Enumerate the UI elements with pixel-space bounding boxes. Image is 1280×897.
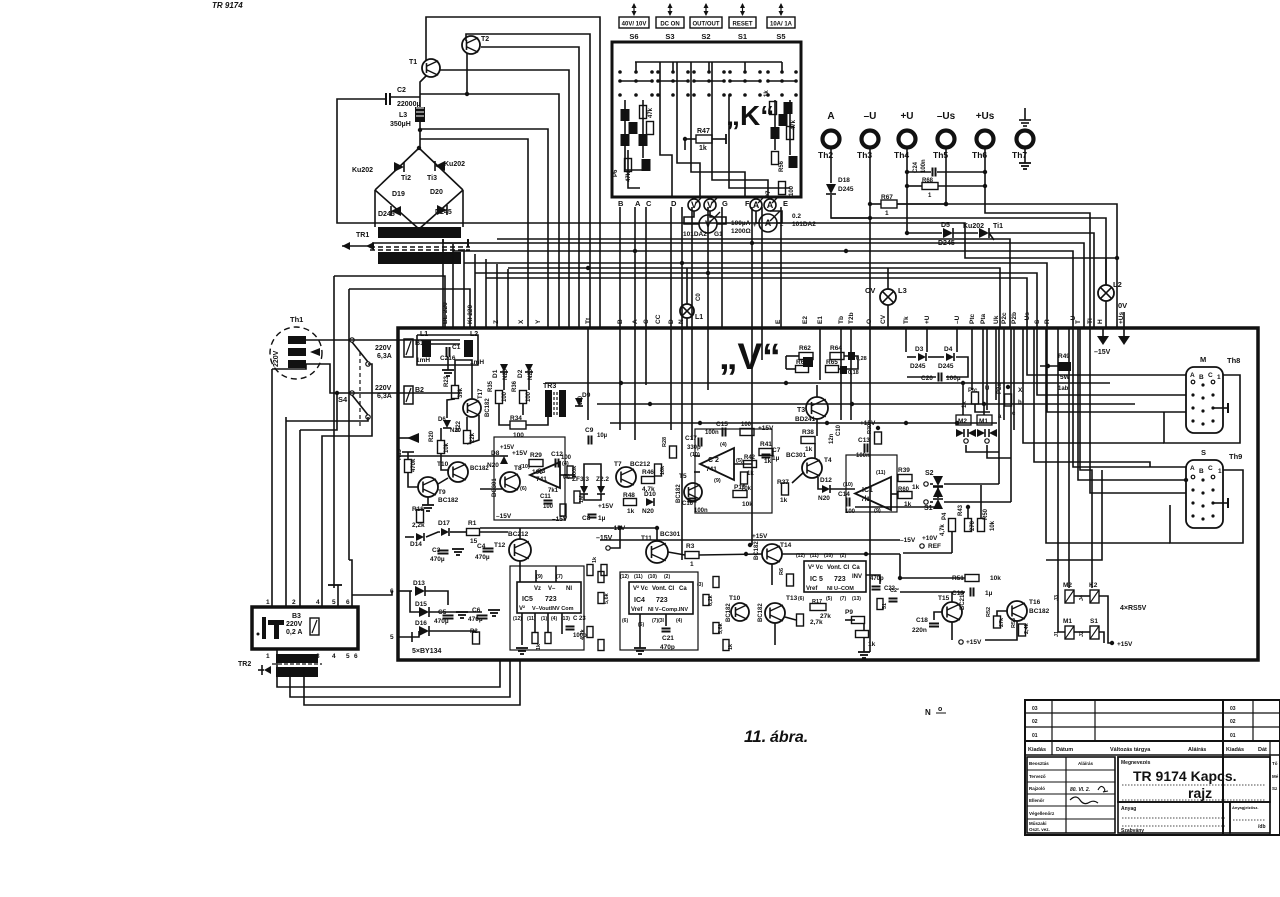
wire D16 right (429, 630, 476, 632)
wire bridge top-right arm (419, 148, 463, 190)
svg-text:D245: D245 (838, 186, 854, 193)
title col b (1094, 700, 1096, 741)
op-amp IC1 741 (855, 477, 891, 510)
svg-text:10µ: 10µ (597, 433, 608, 439)
svg-text:Sz: Sz (1272, 786, 1278, 791)
wire interior h404 (597, 403, 1135, 405)
svg-text:T10: T10 (729, 595, 741, 602)
svg-text:X: X (518, 319, 525, 324)
meter symbol V1 (688, 196, 703, 211)
terminal Th4 circle (899, 131, 916, 148)
wire IC6 b4 (561, 613, 563, 624)
wire lamp L1 below (686, 318, 688, 328)
svg-text:12n: 12n (829, 433, 835, 444)
transistor T2 (462, 36, 480, 54)
svg-text:1k: 1k (764, 90, 770, 97)
resistor P10 (733, 491, 747, 498)
svg-text:B: B (1199, 374, 1204, 381)
wire S4b (300, 393, 337, 430)
svg-text:2: 2 (292, 599, 296, 606)
wire C18 T15 (934, 612, 942, 620)
svg-text:741: 741 (536, 476, 547, 483)
wire IC6 b2 (534, 613, 536, 632)
svg-text:R47: R47 (697, 128, 710, 135)
svg-text:6: 6 (354, 653, 358, 660)
svg-text:–15V: –15V (496, 513, 512, 520)
thyristor Ti1 (979, 228, 989, 238)
wire S2 line (930, 483, 933, 485)
wire fan h243 (443, 243, 1084, 328)
wire relay M2 K2 (1074, 595, 1090, 597)
transistor T13 (765, 603, 785, 623)
ground below Th7 (1019, 163, 1031, 169)
svg-text:S1: S1 (924, 505, 933, 512)
wire T11 R3 (668, 552, 685, 555)
svg-text:D20: D20 (430, 189, 443, 196)
svg-text:01: 01 (1032, 733, 1038, 739)
svg-text:D: D (671, 199, 677, 208)
wire stair r2 (1010, 328, 1012, 502)
wire R38 T4 (814, 443, 816, 458)
wire K stair 3 (677, 62, 700, 197)
thyristor M2 sym a (956, 429, 964, 437)
diode D6 (443, 420, 451, 428)
svg-text:Tb: Tb (838, 316, 845, 324)
transformer unit T box (252, 607, 358, 649)
svg-text:5: 5 (390, 634, 394, 641)
svg-text:(4): (4) (720, 442, 727, 448)
capacitor C12 (556, 459, 559, 468)
svg-text:R34: R34 (510, 415, 522, 422)
wire K drop x722 (721, 207, 723, 328)
wire drop 752 in (751, 328, 753, 545)
diode D12 (822, 485, 830, 493)
svg-text:TR 9174: TR 9174 (212, 1, 243, 10)
wire K drop x646 (645, 207, 647, 328)
svg-text:6: 6 (346, 599, 350, 606)
svg-text:TR 9174 Kapcs.: TR 9174 Kapcs. (1133, 768, 1237, 784)
svg-text:101DA2: 101DA2 (792, 221, 816, 228)
svg-text:NI: NI (566, 586, 572, 592)
wire bus left end 0 (442, 239, 444, 328)
svg-text:(7): (7) (556, 574, 563, 580)
svg-text:A: A (827, 111, 834, 122)
diode D15 (419, 607, 429, 617)
resistor Rb1 (532, 633, 538, 644)
meter symbol A1 (750, 196, 765, 211)
svg-text:(12): (12) (513, 616, 522, 622)
wire bottom loop2 (290, 660, 510, 697)
wire cluster v1 (455, 360, 472, 399)
svg-text:D15: D15 (415, 601, 427, 608)
wire K stair 2 (660, 62, 672, 197)
svg-text:Változás tárgya: Változás tárgya (1110, 747, 1151, 753)
svg-text:220V: 220V (375, 385, 392, 392)
resistor R52 (994, 616, 1001, 628)
svg-text:A: A (1190, 465, 1195, 472)
resistor Rz1 (587, 565, 593, 576)
contact dot S4 r2 782 (780, 93, 784, 97)
svg-text:Pta: Pta (980, 314, 987, 325)
svg-text:7k1: 7k1 (548, 488, 559, 494)
capacitor C22b (889, 599, 898, 602)
resistor R37 (782, 483, 789, 495)
svg-text:P2c: P2c (1001, 312, 1008, 324)
diode D19 (391, 206, 401, 216)
ground C5 (456, 612, 468, 618)
junction fan 946 204 (944, 202, 948, 206)
wire M2 contact link (966, 445, 999, 452)
transformer TR1 core end bar (467, 239, 469, 247)
resistor R51 (965, 575, 979, 582)
wire drop 983 in (982, 328, 984, 405)
inductor L1f (422, 340, 431, 357)
svg-text:(9): (9) (536, 574, 543, 580)
resistor Rb2 (545, 633, 551, 644)
contact dot S4 r0 796 (794, 70, 798, 74)
switch S4 contact a (350, 338, 354, 342)
svg-text:1mH: 1mH (416, 357, 430, 364)
title right strip (1269, 741, 1271, 835)
svg-text:1µ: 1µ (985, 590, 993, 597)
wire -15V stub (1102, 328, 1104, 337)
title main left box (1027, 757, 1115, 833)
svg-text:R48: R48 (623, 492, 635, 499)
svg-text:02: 02 (1230, 719, 1236, 725)
junction h383 a (784, 381, 788, 385)
pot slug 0.28 (848, 352, 855, 360)
R47 lead end bar (725, 134, 727, 144)
wire minusU deep (869, 250, 871, 652)
arrow -15V (1097, 336, 1109, 345)
wire M1 contact link (987, 445, 1011, 458)
junction bus 708 273 (706, 271, 710, 275)
svg-text:+: + (753, 223, 757, 229)
contact S1 (924, 500, 928, 504)
transformer TR2 dashes (272, 663, 322, 665)
svg-text:5: 5 (332, 599, 336, 606)
svg-text:R18: R18 (412, 506, 424, 513)
wire R34 right (526, 417, 548, 425)
svg-text:Ti1: Ti1 (993, 223, 1003, 230)
capacitor C21 (662, 629, 671, 632)
anyag box (1118, 802, 1230, 833)
svg-text:G: G (722, 199, 728, 208)
switch S4 contact d (366, 415, 370, 419)
wire L2 up (1105, 258, 1107, 285)
svg-text:/db: /db (1258, 824, 1266, 830)
resistor R56c black (789, 156, 798, 168)
contact dot S2 r0 724 (722, 70, 726, 74)
wire plug line1 (306, 339, 460, 341)
svg-text:Uk: Uk (993, 315, 1000, 324)
svg-text:470µ: 470µ (430, 556, 445, 563)
contact dot S1 r0 673 (671, 70, 675, 74)
svg-text:723: 723 (656, 597, 668, 604)
svg-text:Oszt. vez.: Oszt. vez. (1029, 827, 1050, 832)
resistor R48 (624, 499, 637, 506)
switch label box S1 (729, 17, 756, 28)
svg-text:+15V: +15V (752, 533, 768, 540)
capacitor C14 (847, 498, 850, 507)
wire K drop x682 (681, 207, 683, 328)
wire pin5 stub (337, 585, 339, 607)
svg-text:1k: 1k (764, 458, 772, 465)
svg-text:C0: C0 (696, 293, 702, 301)
wire TR2 core (258, 669, 264, 671)
wire R47 left drop (684, 139, 686, 150)
pin Th8 8 (1211, 406, 1214, 409)
wire left v334 (333, 276, 335, 588)
svg-text:S5: S5 (776, 32, 785, 41)
junction R68 left (905, 184, 909, 188)
contact dot S2 r2 724 (722, 93, 726, 97)
pin Th9 10 (1201, 517, 1204, 520)
junction +15V IC1 (876, 426, 880, 430)
wire T13 e (774, 623, 776, 645)
contact row line S3 (730, 80, 760, 82)
svg-text:7ⅼ1: 7ⅼ1 (861, 494, 870, 503)
junction R67 left (868, 202, 872, 206)
wire fan h263 (464, 263, 1047, 328)
svg-text:100k: 100k (572, 465, 578, 478)
resistor R34 (510, 421, 526, 429)
wire bus left end 3 (474, 254, 476, 328)
wire L3 to bridge top (419, 122, 421, 148)
junction T11 c (655, 526, 659, 530)
svg-text:100p: 100p (573, 633, 587, 639)
capacitor C11 (544, 501, 553, 504)
svg-text:T15: T15 (938, 595, 950, 602)
contact dot S3 r2 760 (758, 93, 762, 97)
wire bus left end 5 (496, 264, 498, 328)
capacitor C23 (566, 627, 575, 630)
zener ZF33 (580, 486, 588, 494)
wire Th8 loop (1164, 375, 1240, 443)
contact dot S4 r0 782 (780, 70, 784, 74)
svg-text:C4: C4 (477, 543, 486, 550)
contact dot S4 r2 768 (766, 93, 770, 97)
svg-text:N: N (925, 708, 931, 717)
svg-text:TR2: TR2 (238, 661, 251, 668)
switch arrowheads S6 (632, 3, 637, 8)
svg-text:T11: T11 (641, 535, 652, 542)
wire fan h218 (870, 218, 1106, 285)
resistor R19 (405, 460, 412, 473)
svg-text:1: 1 (690, 561, 694, 568)
junction C19 (898, 576, 902, 580)
wire C24 line2 (937, 171, 985, 173)
transistor T17 (463, 399, 481, 417)
contact S2 (924, 482, 928, 486)
svg-text:R2: R2 (470, 629, 478, 635)
thyristor Ti2 (394, 162, 404, 172)
contact row line S4 (768, 80, 796, 82)
diode D1 (500, 364, 508, 372)
wire R35 R36 tops (522, 404, 524, 415)
svg-text:5,6k: 5,6k (604, 592, 610, 604)
contact lever S2 (708, 62, 710, 72)
svg-text:Kiadás: Kiadás (1028, 747, 1046, 753)
wire stair r5 (1046, 328, 1170, 543)
svg-text:OUT/OUT: OUT/OUT (693, 22, 720, 28)
transistor T3 (806, 397, 828, 419)
svg-text:NI U–COM: NI U–COM (827, 586, 854, 592)
svg-text:E1: E1 (817, 316, 824, 324)
wire center h423 (610, 422, 997, 424)
pin Th8 10 (1201, 422, 1204, 425)
svg-text:Vont. CI: Vont. CI (652, 586, 675, 592)
instrument G1 voltmeter (699, 212, 720, 233)
switch arrowheads S1 (740, 3, 745, 8)
title header bottom (1025, 754, 1280, 756)
wire stair r3 (1023, 328, 1164, 443)
wire T16 e (985, 621, 1017, 640)
enclosure op-amp C3 circuit (494, 437, 565, 520)
resistor R22 (464, 431, 471, 444)
svg-text:350µH: 350µH (390, 121, 411, 128)
wire plug line3 (306, 364, 460, 393)
switch S4 blade 1 (352, 342, 368, 362)
transistor T1 (422, 59, 440, 77)
wire Ti1 right (989, 233, 1094, 328)
svg-text:100: 100 (502, 391, 508, 402)
wire Th8 feed1 (1027, 328, 1186, 375)
svg-text:Th9: Th9 (1229, 452, 1242, 461)
svg-text:P6: P6 (613, 169, 619, 177)
svg-text:+15V: +15V (598, 503, 614, 510)
svg-text:470µ: 470µ (468, 616, 483, 623)
contact dot S2 r1 724 (722, 79, 726, 83)
IC IC5 723 (804, 561, 866, 592)
wire 0V stub2 (1123, 328, 1125, 337)
svg-text:100: 100 (513, 432, 524, 439)
wire K stair 5 (712, 62, 768, 197)
lamp L3 indicator (880, 289, 896, 305)
resistor R38 (801, 437, 815, 444)
junction h404 a (850, 402, 854, 406)
contact dot S0 r2 652 (650, 93, 654, 97)
svg-text:REF: REF (928, 543, 941, 550)
wire S4c (322, 364, 372, 440)
contact dot S2 r2 709 (707, 93, 711, 97)
diode D3 (918, 353, 926, 361)
svg-text:BD241: BD241 (795, 416, 816, 423)
wire IC6 b3 (547, 613, 549, 632)
svg-text:0.2: 0.2 (792, 213, 801, 220)
svg-text:V²: V² (519, 605, 525, 612)
junction T11 528b (618, 526, 622, 530)
svg-text:+Us: +Us (976, 111, 995, 122)
fuse B1 (404, 339, 413, 357)
svg-text:RESET: RESET (732, 22, 752, 28)
signature squiggle2 (1070, 797, 1098, 804)
svg-text:D6: D6 (438, 417, 446, 423)
contact row line S0 (620, 80, 652, 82)
svg-text:D10: D10 (644, 491, 656, 498)
diode D14 (416, 533, 424, 541)
svg-text:S1: S1 (738, 32, 747, 41)
wire L2 down (1105, 301, 1107, 328)
contact dot S1 r1 673 (671, 79, 675, 83)
svg-text:D14: D14 (410, 541, 422, 548)
svg-text:D1: D1 (492, 369, 499, 378)
svg-text:D4: D4 (944, 346, 953, 353)
wire Th8 feed3 (1047, 328, 1186, 412)
resistor R29 (529, 460, 543, 467)
wire C2 right lead (391, 96, 420, 98)
wire left v349 (348, 289, 350, 560)
switch S4 contact b (350, 391, 354, 395)
resistor R56 black (771, 127, 780, 139)
resistor R53k (787, 127, 794, 140)
svg-text:Beosztás: Beosztás (1029, 761, 1049, 766)
svg-text:S2: S2 (925, 470, 934, 477)
svg-text:E2: E2 (802, 316, 809, 324)
svg-text:T2: T2 (481, 36, 489, 43)
svg-text:T10: T10 (437, 461, 449, 468)
contact dot S0 r0 652 (650, 70, 654, 74)
contact lever S1 (672, 62, 674, 72)
svg-text:„K“: „K“ (726, 100, 774, 131)
wire fan A-line (831, 217, 870, 219)
pin Th8 4 (1201, 396, 1204, 399)
wire T11 c (656, 528, 658, 541)
svg-text:U: U (985, 386, 989, 392)
meter symbol V2 (704, 196, 719, 211)
diode D5 (943, 228, 953, 238)
switch arrowheads S2 (704, 3, 709, 8)
wire bus left end 6 (507, 269, 509, 328)
wire K drop x692 (691, 207, 693, 328)
capacitor C16 (688, 499, 697, 502)
wire drop 620 long (619, 328, 621, 430)
wire K left cluster2 (642, 100, 644, 158)
capacitor C9 (589, 436, 592, 445)
svg-text:R56: R56 (779, 160, 785, 172)
resistor R1 (467, 529, 480, 536)
svg-text:0,28: 0,28 (856, 356, 867, 362)
wire lamp L1 above (686, 268, 688, 304)
switch label box S6 (619, 17, 649, 28)
pin Th9 7 (1201, 504, 1204, 507)
svg-text:R6: R6 (779, 568, 785, 575)
wire R3 T14 (699, 554, 762, 555)
wire L3 up (887, 268, 889, 289)
svg-text:Ptc: Ptc (969, 314, 976, 325)
svg-text:39k: 39k (458, 387, 464, 398)
capacitor C13 (865, 444, 868, 453)
svg-text:(6): (6) (520, 486, 527, 492)
svg-text:0,2 A: 0,2 A (286, 629, 302, 636)
svg-text:R36: R36 (512, 380, 518, 392)
switch S2 sym2 (933, 487, 943, 497)
wire K drop x708 (707, 207, 709, 328)
wire drop 762 in (761, 328, 763, 360)
wire drop 708 in (707, 328, 709, 390)
wire D12 right (830, 488, 855, 490)
wire stair r4 (1034, 328, 1150, 467)
transformer TR1 arrow line (342, 245, 368, 247)
pot P2 k (770, 102, 777, 115)
junction R47 left (683, 137, 687, 141)
contact dot S0 r0 636 (634, 70, 638, 74)
capacitor C24 (933, 168, 936, 177)
pin Th8 11 (1211, 419, 1214, 422)
rail sym R19 (402, 451, 414, 453)
title name box (1118, 757, 1270, 802)
junction S4 left (335, 391, 339, 395)
